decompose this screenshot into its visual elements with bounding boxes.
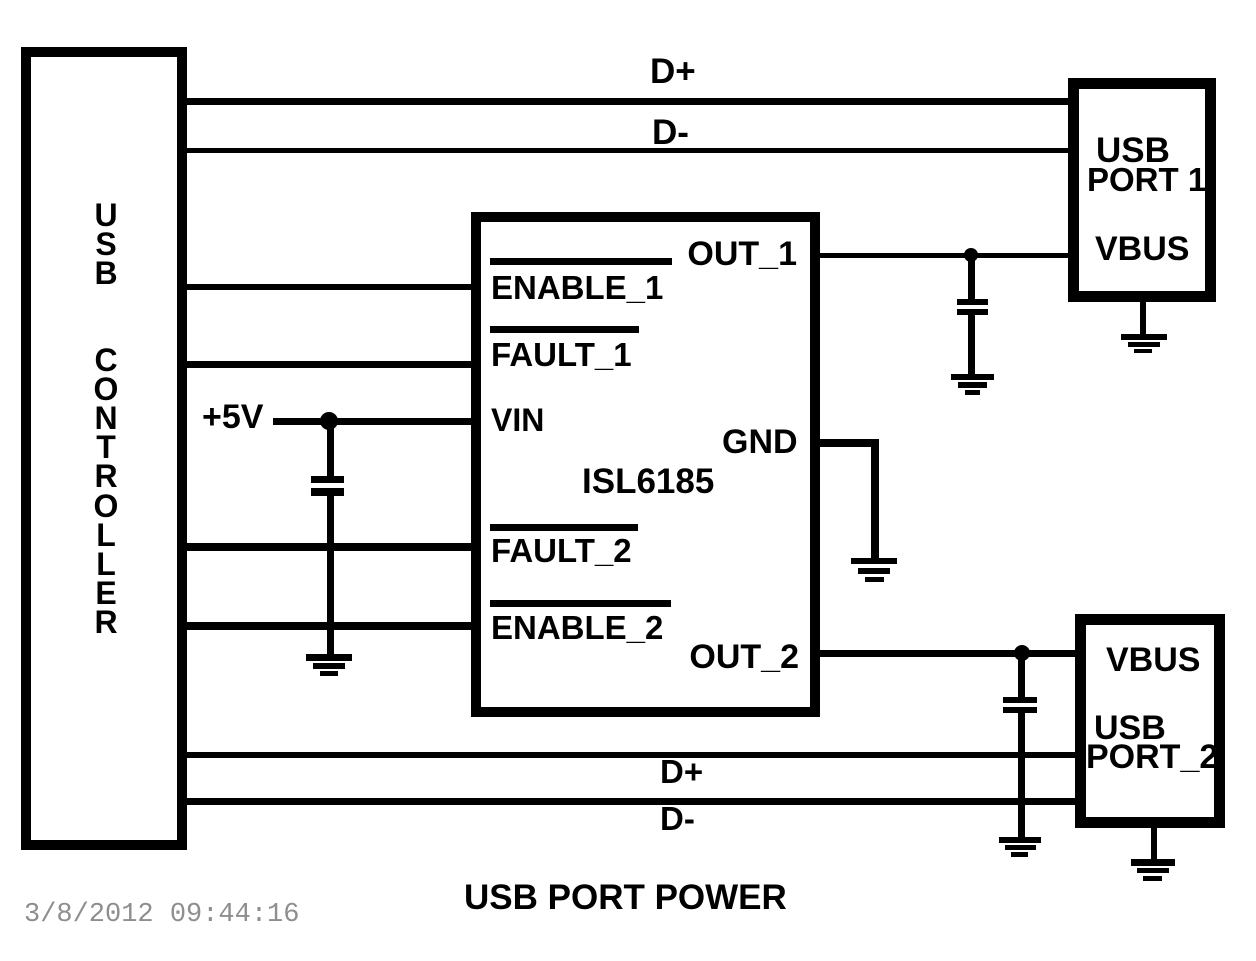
USB controller box — [26, 52, 182, 845]
wire D- top (controller to USB port 1) — [183, 148, 1073, 153]
ground (U1 GND pin) — [851, 558, 897, 582]
svg-text:OUT_2: OUT_2 — [689, 638, 799, 676]
wire OUT_2 (U1 to USB port 2 VBUS) — [815, 650, 1080, 657]
node OUT_1 junction — [964, 248, 978, 262]
wire D- bottom (controller to USB port 2) — [183, 798, 1080, 805]
capacitor C1 plates — [311, 476, 344, 496]
wire USB port 1 ground stem — [1140, 296, 1146, 336]
capacitor C2 lead bottom — [968, 315, 975, 374]
capacitor C1 lead top — [327, 421, 334, 477]
op-amp U1 ISL6185 box — [476, 217, 815, 712]
pin label ENABLE_1 with overline — [490, 258, 672, 306]
pin label ENABLE_2 with overline — [490, 600, 671, 646]
wire ENABLE_2 (controller to U1) — [183, 622, 478, 630]
ground (below C1) — [306, 654, 352, 676]
label USB (vertical, controller) — [94, 197, 117, 291]
capacitor C1 lead bottom — [327, 496, 334, 655]
svg-text:D-: D- — [660, 800, 695, 837]
svg-text:D+: D+ — [650, 52, 696, 91]
svg-text:B: B — [94, 255, 117, 291]
capacitor C3 lead bottom — [1018, 713, 1025, 837]
pin label FAULT_2 with overline — [490, 524, 638, 569]
USB port 2 box — [1081, 620, 1220, 823]
ground (USB port 1) — [1121, 334, 1167, 353]
svg-text:PORT_2: PORT_2 — [1086, 738, 1218, 776]
ground (below C3) — [999, 837, 1041, 857]
node OUT_2 junction — [1014, 645, 1030, 661]
svg-text:GND: GND — [722, 423, 798, 461]
wire VIN (+5V to U1) — [273, 418, 478, 425]
svg-text:D-: D- — [652, 113, 689, 152]
wire FAULT_2 (controller to U1) — [183, 543, 478, 551]
wire D+ bottom (controller to USB port 2) — [183, 752, 1080, 758]
svg-text:ENABLE_1: ENABLE_1 — [491, 269, 663, 306]
svg-text:VIN: VIN — [491, 402, 544, 438]
svg-text:PORT 1: PORT 1 — [1087, 161, 1206, 198]
svg-text:R: R — [94, 604, 117, 640]
capacitor C2 plates — [957, 299, 988, 315]
capacitor C3 lead top — [1018, 653, 1025, 697]
wire FAULT_1 (controller to U1) — [183, 361, 478, 368]
svg-text:D+: D+ — [660, 753, 703, 790]
wire OUT_1 (U1 to USB port 1 VBUS) — [815, 253, 1073, 258]
capacitor C2 lead top — [968, 255, 975, 299]
svg-text:VBUS: VBUS — [1095, 230, 1189, 268]
ground (below C2) — [951, 374, 994, 395]
wire GND pin horizontal — [815, 439, 879, 447]
wire USB port 2 ground stem — [1151, 822, 1157, 860]
svg-text:FAULT_1: FAULT_1 — [491, 336, 632, 373]
svg-text:3/8/2012 09:44:16: 3/8/2012 09:44:16 — [24, 900, 299, 930]
svg-text:OUT_1: OUT_1 — [687, 235, 797, 273]
label CONTROLLER (vertical, controller) — [94, 342, 119, 640]
wire D+ top (controller to USB port 1) — [183, 98, 1073, 105]
svg-text:FAULT_2: FAULT_2 — [491, 532, 632, 569]
svg-text:VBUS: VBUS — [1106, 641, 1200, 679]
svg-text:USB PORT POWER: USB PORT POWER — [464, 878, 787, 917]
capacitor C3 plates — [1003, 697, 1037, 713]
wire GND pin vertical — [871, 439, 879, 560]
svg-text:ENABLE_2: ENABLE_2 — [491, 609, 663, 646]
pin label FAULT_1 with overline — [490, 326, 639, 373]
svg-text:+5V: +5V — [202, 398, 264, 436]
ground (USB port 2) — [1131, 859, 1175, 881]
USB port 1 box — [1074, 84, 1211, 297]
svg-text:ISL6185: ISL6185 — [582, 462, 714, 501]
wire ENABLE_1 (controller to U1) — [183, 284, 478, 290]
node VIN junction — [320, 412, 338, 430]
